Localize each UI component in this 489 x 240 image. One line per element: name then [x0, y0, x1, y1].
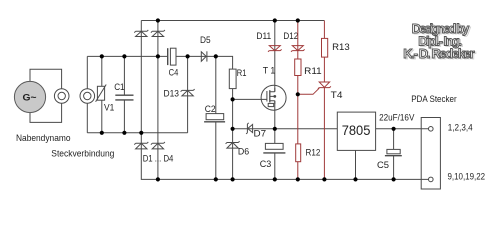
wire C1 rail — [123, 56, 125, 132]
svg-text:D5: D5 — [200, 35, 211, 45]
svg-text:9,10,19,22: 9,10,19,22 — [448, 172, 486, 182]
svg-text:R11: R11 — [304, 66, 322, 76]
regulator U1 7805 — [337, 112, 375, 150]
wire regulator output — [376, 128, 429, 130]
svg-text:Steckverbindung: Steckverbindung — [51, 149, 114, 159]
wire D12 rail (red) — [297, 21, 299, 180]
thyristor T4 (red) — [298, 82, 331, 94]
diode D4 (bridge, lower right) — [151, 142, 165, 149]
svg-text:D1 ... D4: D1 ... D4 — [143, 154, 174, 164]
generator G1 Nabendynamo — [14, 81, 45, 112]
svg-text:C3: C3 — [260, 159, 272, 169]
wire R13/T4 rail (red) — [323, 21, 325, 180]
svg-text:7805: 7805 — [342, 123, 371, 138]
diode D3 (bridge, upper right) — [151, 30, 165, 37]
svg-text:V1: V1 — [104, 103, 114, 113]
svg-text:Nabendynamo: Nabendynamo — [16, 133, 71, 143]
wire C5 leads — [393, 129, 395, 180]
capacitor C1 — [115, 95, 133, 100]
capacitor C2 — [204, 114, 225, 122]
resistor R1 — [229, 69, 236, 89]
connector J1 PDA Stecker — [421, 118, 440, 190]
wire T1 gate — [233, 98, 267, 100]
wire AC bus bottom — [87, 132, 187, 134]
diode D5 — [201, 51, 207, 61]
svg-text:C5: C5 — [377, 160, 389, 170]
svg-text:R1: R1 — [237, 68, 247, 78]
wire top plus rail — [141, 20, 324, 22]
wire AC bus top (to C4 left plate) — [87, 55, 167, 57]
capacitor C4 — [168, 48, 176, 65]
wire connector2 bottom lead — [86, 103, 88, 132]
svg-text:K.- D. Redeker: K.- D. Redeker — [403, 46, 474, 61]
wire ground bus — [141, 133, 428, 180]
wire AC bus top right (C4 to R1 corner) — [176, 56, 233, 69]
svg-text:C2: C2 — [205, 104, 216, 114]
resistor R11 (red) — [295, 59, 301, 76]
svg-text:T4: T4 — [331, 90, 343, 100]
resistor R13 (red) — [322, 38, 328, 57]
svg-text:D13: D13 — [164, 89, 180, 99]
pin 1,2,3,4 circle — [429, 127, 434, 132]
svg-text:1,2,3,4: 1,2,3,4 — [448, 123, 473, 133]
varistor V1 — [96, 85, 107, 102]
svg-text:D7: D7 — [254, 128, 267, 138]
svg-text:C1: C1 — [114, 82, 124, 92]
wire regulator ground pin — [355, 150, 357, 179]
svg-text:C4: C4 — [169, 68, 179, 78]
wire V1 rail — [101, 56, 103, 132]
wire C3 leads — [274, 129, 276, 180]
svg-text:D11: D11 — [256, 31, 271, 41]
wire regulator input — [233, 128, 338, 130]
svg-text:PDA Stecker: PDA Stecker — [411, 94, 457, 104]
resistor R12 (red) — [296, 144, 301, 162]
svg-text:G~: G~ — [23, 92, 37, 102]
diode D12 (red zener) — [291, 46, 305, 52]
diode D11 (red) — [268, 46, 282, 52]
designer credit text — [403, 21, 476, 62]
svg-text:T 1: T 1 — [263, 66, 276, 76]
capacitor C5 — [385, 149, 402, 155]
diode D6 — [226, 141, 240, 148]
svg-text:D6: D6 — [238, 147, 249, 157]
wire generator bottom loop — [30, 103, 62, 122]
wire D13 rail — [187, 56, 189, 132]
wire D2/D1 rail — [140, 21, 142, 133]
diode D2 (bridge, upper left) — [134, 30, 148, 37]
transistor T1 (MOSFET) — [261, 85, 286, 110]
wire T1 source rail — [274, 101, 276, 129]
connector plug left half — [54, 89, 69, 104]
svg-text:R13: R13 — [332, 42, 350, 52]
connector plug right half — [80, 89, 95, 104]
wire C2 rail — [215, 56, 217, 179]
diode D1 (bridge, lower left) — [134, 142, 148, 149]
diode D7 — [246, 123, 253, 134]
diode D13 — [181, 89, 195, 96]
svg-text:22uF/16V: 22uF/16V — [379, 112, 415, 122]
wire D3/D4 rail — [157, 21, 159, 180]
wire connector2 top lead — [86, 56, 88, 88]
svg-text:R12: R12 — [306, 148, 321, 158]
pin 9,10,19,22 circle — [429, 177, 434, 182]
capacitor C3 — [263, 143, 285, 153]
wire generator top loop — [30, 69, 62, 88]
wire R1/D6 rail — [232, 89, 234, 180]
svg-text:D12: D12 — [283, 31, 298, 41]
wire T1 drain rail — [274, 21, 276, 92]
